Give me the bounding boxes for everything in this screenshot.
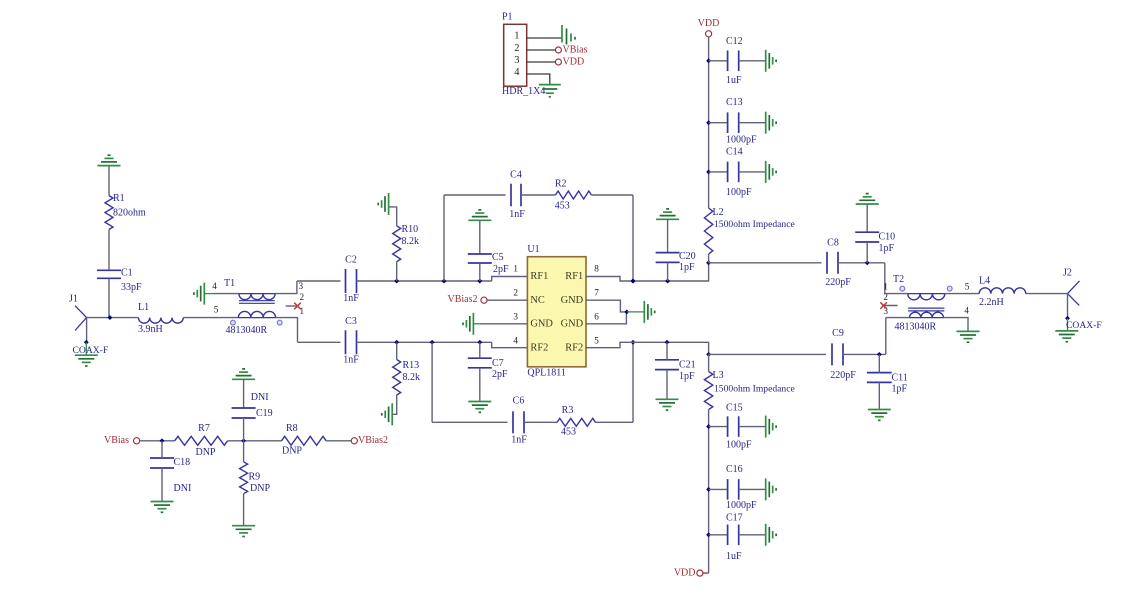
svg-text:1500ohm Impedance: 1500ohm Impedance <box>714 219 795 230</box>
capacitor C19 <box>232 392 273 419</box>
wire <box>492 277 528 282</box>
svg-text:L2: L2 <box>713 207 724 218</box>
wire <box>739 534 766 536</box>
svg-text:NC: NC <box>530 295 545 306</box>
svg-text:C16: C16 <box>726 464 743 475</box>
svg-text:L1: L1 <box>138 302 149 313</box>
wire <box>431 342 433 422</box>
wire <box>87 317 139 319</box>
wire <box>739 171 766 173</box>
wire <box>443 195 445 281</box>
wire <box>739 488 766 490</box>
svg-text:1: 1 <box>300 306 305 316</box>
junction <box>624 309 629 314</box>
junction <box>477 279 482 284</box>
svg-text:3: 3 <box>513 311 518 321</box>
svg-text:C12: C12 <box>726 36 743 47</box>
T2 polarity dot pin1 <box>900 286 905 291</box>
capacitor C7 <box>468 358 508 380</box>
capacitor C18 <box>150 457 191 494</box>
svg-text:3.9nH: 3.9nH <box>138 324 163 335</box>
svg-text:1pF: 1pF <box>679 371 695 382</box>
T1 primary winding <box>239 294 275 300</box>
wire <box>140 440 175 442</box>
wire <box>703 572 709 574</box>
ground (P1 pin 1) <box>562 25 575 45</box>
T1 polarity dot pin5 <box>231 320 236 325</box>
wire <box>586 263 709 281</box>
op-amp U1 QPL1811 <box>513 244 599 379</box>
capacitor C12 <box>726 36 743 86</box>
wire <box>708 37 710 208</box>
svg-text:1pF: 1pF <box>679 262 695 273</box>
ground (P1 pin 4) <box>539 85 561 97</box>
wire <box>586 312 626 324</box>
wire <box>298 341 341 343</box>
svg-text:2pF: 2pF <box>493 264 509 275</box>
svg-text:7: 7 <box>594 287 599 297</box>
resistor R8 <box>282 423 327 457</box>
no-connect X (T2 pin 2) <box>880 302 887 309</box>
svg-text:U1: U1 <box>527 244 539 255</box>
svg-text:C13: C13 <box>726 97 743 108</box>
ground (C12) <box>765 50 767 72</box>
ground (T1 pin 4) <box>194 283 213 305</box>
svg-text:1uF: 1uF <box>726 551 742 562</box>
svg-text:C17: C17 <box>726 513 743 524</box>
svg-text:RF2: RF2 <box>565 342 583 353</box>
svg-text:C11: C11 <box>892 372 908 383</box>
wire <box>108 278 110 317</box>
wire <box>389 207 397 226</box>
T2 polarity dot pin5 <box>947 286 952 291</box>
svg-text:C1: C1 <box>121 268 133 279</box>
wire <box>479 368 481 402</box>
wire <box>527 49 556 51</box>
wire <box>885 318 887 355</box>
svg-text:1nF: 1nF <box>343 293 359 304</box>
power port VBias (P1 pin 2) <box>555 44 587 55</box>
wire <box>709 488 728 490</box>
wire <box>843 353 886 355</box>
wire <box>878 382 880 409</box>
wire <box>480 323 527 325</box>
wire <box>1067 294 1069 319</box>
ground (above C19) <box>232 378 255 380</box>
ground (below R9) <box>232 525 255 527</box>
junction <box>865 260 870 265</box>
ground (above C20) <box>656 218 679 220</box>
svg-text:COAX-F: COAX-F <box>1066 320 1102 331</box>
svg-text:453: 453 <box>561 427 576 438</box>
svg-text:C21: C21 <box>679 360 696 371</box>
junction <box>631 279 636 284</box>
capacitor C9 <box>830 328 856 381</box>
junction <box>706 120 711 125</box>
svg-text:2pF: 2pF <box>492 369 508 380</box>
transformer T1 <box>212 278 304 336</box>
ground (C17) <box>765 524 767 546</box>
svg-text:R3: R3 <box>562 405 574 416</box>
wire <box>396 342 398 359</box>
wire <box>739 122 766 124</box>
svg-text:HDR_1X4: HDR_1X4 <box>502 86 545 97</box>
capacitor C1 <box>97 268 142 293</box>
inductor L2 <box>704 207 794 254</box>
capacitor C4 <box>509 170 525 220</box>
wire <box>708 354 710 371</box>
svg-text:5: 5 <box>214 304 219 314</box>
wire <box>885 293 908 295</box>
svg-text:100pF: 100pF <box>726 187 752 198</box>
wire <box>326 440 351 442</box>
capacitor C5 <box>468 252 509 275</box>
svg-text:GND: GND <box>561 318 584 329</box>
svg-text:220pF: 220pF <box>825 277 851 288</box>
svg-text:4813040R: 4813040R <box>226 325 268 336</box>
power port VDD (bottom) <box>674 567 703 578</box>
svg-text:2.2nH: 2.2nH <box>979 297 1004 308</box>
svg-text:DNP: DNP <box>250 483 270 494</box>
wire <box>243 379 245 408</box>
svg-text:100pF: 100pF <box>726 439 752 450</box>
junction <box>706 58 711 63</box>
junction <box>631 340 636 345</box>
connector J1 <box>69 293 87 330</box>
svg-text:8.2k: 8.2k <box>402 236 420 247</box>
junction <box>706 424 711 429</box>
wire <box>709 534 728 536</box>
wire <box>108 166 110 196</box>
svg-text:DNP: DNP <box>282 445 302 456</box>
wire <box>527 61 556 63</box>
svg-text:VBias2: VBias2 <box>358 435 388 446</box>
ground (above C5) <box>468 219 491 221</box>
wire <box>884 263 886 294</box>
ground (J1 COAX-F) <box>75 354 98 356</box>
junction <box>477 340 482 345</box>
ground (U1 pins 6,7) <box>643 301 645 323</box>
resistor R10 <box>393 224 419 262</box>
svg-text:1000pF: 1000pF <box>726 134 757 145</box>
wire <box>1026 293 1068 295</box>
wire <box>161 468 163 502</box>
wire <box>709 262 822 264</box>
connector J2 <box>1063 268 1080 306</box>
wire <box>357 341 492 343</box>
wire <box>591 194 633 196</box>
wire <box>886 317 910 319</box>
capacitor C8 <box>825 237 851 287</box>
svg-text:L4: L4 <box>979 276 990 287</box>
no-connect X (T1 pin 2) <box>294 303 301 310</box>
svg-text:6: 6 <box>594 311 599 321</box>
wire <box>666 370 668 400</box>
wire <box>667 262 669 281</box>
svg-text:C9: C9 <box>832 328 844 339</box>
wire <box>709 60 728 62</box>
wire <box>709 426 728 428</box>
T1 secondary winding <box>238 311 275 317</box>
wire <box>492 342 528 347</box>
power port VBias2 (U1 pin 2) <box>448 294 488 305</box>
svg-text:1500ohm Impedance: 1500ohm Impedance <box>714 383 795 394</box>
T1 pin 2 stub <box>286 305 298 307</box>
wire <box>243 418 245 441</box>
junction <box>665 340 670 345</box>
svg-text:J1: J1 <box>69 293 78 304</box>
junction <box>706 260 711 265</box>
svg-text:8: 8 <box>594 263 599 273</box>
svg-text:3: 3 <box>514 55 519 66</box>
svg-text:GND: GND <box>561 295 584 306</box>
ground (below C11) <box>868 409 891 411</box>
wire <box>1067 318 1069 331</box>
svg-text:R1: R1 <box>113 193 125 204</box>
junction <box>877 352 882 357</box>
wire <box>444 194 506 196</box>
wire <box>228 440 282 442</box>
capacitor C6 <box>511 395 527 445</box>
wire <box>586 300 627 312</box>
ground (R10) <box>388 193 390 215</box>
capacitor C11 <box>867 372 908 394</box>
svg-text:1uF: 1uF <box>726 75 742 86</box>
wire <box>479 263 481 281</box>
svg-text:C18: C18 <box>174 457 191 468</box>
svg-text:33pF: 33pF <box>121 282 142 293</box>
wire <box>838 262 885 264</box>
capacitor C16 <box>726 464 757 511</box>
svg-text:8.2k: 8.2k <box>403 372 421 383</box>
svg-text:J2: J2 <box>1063 268 1072 279</box>
wire <box>297 280 341 282</box>
svg-text:1pF: 1pF <box>892 384 908 395</box>
wire <box>524 421 557 423</box>
svg-text:DNP: DNP <box>195 447 215 458</box>
junction <box>160 438 165 443</box>
ground (J2 COAX-F) <box>1055 330 1078 332</box>
svg-text:5: 5 <box>965 282 970 292</box>
svg-text:220pF: 220pF <box>830 370 856 381</box>
power port VBias <box>104 435 140 446</box>
junction <box>107 315 112 320</box>
wire <box>945 293 979 295</box>
wire <box>709 122 728 124</box>
resistor R2 <box>555 178 592 211</box>
ground (C13) <box>765 112 767 134</box>
T1 polarity dot pin1 <box>277 320 282 325</box>
resistor R13 <box>393 360 420 396</box>
resistor R3 <box>557 405 596 438</box>
wire <box>275 281 297 294</box>
svg-text:C6: C6 <box>513 395 525 406</box>
ground (C16) <box>765 478 767 500</box>
T2 core <box>908 307 944 309</box>
svg-text:1: 1 <box>513 263 518 273</box>
wire <box>357 280 492 282</box>
svg-text:5: 5 <box>594 335 599 345</box>
svg-text:C7: C7 <box>492 358 504 369</box>
capacitor C15 <box>726 402 752 450</box>
transformer T2 <box>882 274 970 333</box>
resistor R9 <box>240 462 271 494</box>
junction <box>706 532 711 537</box>
svg-text:C4: C4 <box>510 170 522 181</box>
svg-text:RF1: RF1 <box>565 271 583 282</box>
capacitor C14 <box>726 147 752 198</box>
ground (above C10) <box>856 203 879 205</box>
svg-text:2: 2 <box>514 43 519 54</box>
svg-text:T1: T1 <box>224 278 235 289</box>
wire <box>479 342 481 358</box>
svg-text:C2: C2 <box>345 255 357 266</box>
inductor L1 <box>138 302 183 335</box>
wire <box>527 37 562 39</box>
svg-text:QPL1811: QPL1811 <box>527 368 566 379</box>
svg-text:C8: C8 <box>827 237 839 248</box>
ground (T2 pin 4) <box>957 330 980 332</box>
junction <box>394 279 399 284</box>
wire <box>161 441 163 458</box>
junction <box>430 340 435 345</box>
wire <box>86 318 88 343</box>
T1 core <box>239 300 275 302</box>
wire <box>739 60 766 62</box>
svg-text:VDD: VDD <box>698 18 720 29</box>
svg-text:C20: C20 <box>679 251 696 262</box>
svg-text:C3: C3 <box>345 316 357 327</box>
svg-text:4: 4 <box>212 281 217 291</box>
wire <box>866 242 868 263</box>
capacitor C10 <box>855 231 895 254</box>
svg-text:L3: L3 <box>713 370 724 381</box>
svg-text:R13: R13 <box>403 360 420 371</box>
ground (R13) <box>391 403 393 425</box>
svg-text:RF2: RF2 <box>530 342 548 353</box>
wire <box>479 220 481 254</box>
connector P1 HDR_1X4 <box>502 11 545 96</box>
svg-text:VBias2: VBias2 <box>448 294 478 305</box>
wire <box>586 342 709 354</box>
wire <box>243 494 245 526</box>
wire <box>709 353 826 355</box>
wire <box>667 219 669 252</box>
wire <box>487 299 527 301</box>
svg-text:C15: C15 <box>726 402 743 413</box>
T2 primary winding <box>908 294 945 300</box>
T2 pin 2 stub <box>882 305 898 307</box>
ground (U1 pin 3) <box>463 313 480 335</box>
ground (C15) <box>765 416 767 438</box>
ground (below C18) <box>151 501 174 503</box>
svg-text:RF1: RF1 <box>530 271 548 282</box>
capacitor C21 <box>655 360 696 382</box>
svg-text:2: 2 <box>513 287 518 297</box>
ground (below C7) <box>468 401 491 403</box>
T2 secondary winding <box>910 312 944 317</box>
junction <box>241 438 246 443</box>
svg-text:1000pF: 1000pF <box>726 500 757 511</box>
ground (below C21) <box>656 398 679 400</box>
wire <box>396 262 398 281</box>
wire <box>108 230 110 271</box>
wire <box>627 311 645 313</box>
wire <box>944 318 969 332</box>
svg-text:P1: P1 <box>502 11 513 22</box>
junction <box>84 340 89 345</box>
wire <box>85 342 87 355</box>
svg-text:R8: R8 <box>286 423 298 434</box>
svg-text:VDD: VDD <box>674 567 696 578</box>
junction <box>706 487 711 492</box>
wire <box>866 204 868 232</box>
wire <box>708 254 710 263</box>
wire <box>521 194 556 196</box>
svg-text:1: 1 <box>883 281 888 291</box>
capacitor C17 <box>726 513 743 562</box>
svg-text:C10: C10 <box>879 231 896 242</box>
svg-text:1pF: 1pF <box>879 243 895 254</box>
inductor L4 <box>979 276 1026 309</box>
ground (above R1) <box>98 165 121 167</box>
svg-text:VDD: VDD <box>563 56 585 67</box>
junction <box>394 340 399 345</box>
resistor R1 <box>105 193 146 230</box>
svg-text:VBias: VBias <box>563 44 588 55</box>
svg-text:C19: C19 <box>256 408 273 419</box>
wire <box>739 426 766 428</box>
junction <box>631 279 636 284</box>
svg-text:R9: R9 <box>249 471 261 482</box>
svg-text:GND: GND <box>530 318 553 329</box>
ground (C14) <box>765 161 767 183</box>
wire <box>878 354 880 372</box>
power port VBias2 <box>351 435 388 446</box>
svg-text:1nF: 1nF <box>509 209 525 220</box>
wire <box>527 74 550 85</box>
wire <box>708 410 710 574</box>
svg-text:4813040R: 4813040R <box>895 321 937 332</box>
svg-text:820ohm: 820ohm <box>113 207 146 218</box>
svg-text:1nF: 1nF <box>343 354 359 365</box>
svg-text:DNI: DNI <box>174 483 192 494</box>
resistor R7 <box>175 423 228 458</box>
junction <box>1065 316 1070 321</box>
power port VDD (top) <box>698 18 720 37</box>
svg-text:3: 3 <box>299 281 304 291</box>
svg-text:DNI: DNI <box>251 392 269 403</box>
svg-text:C14: C14 <box>726 147 743 158</box>
junction <box>665 279 670 284</box>
capacitor C13 <box>726 97 757 145</box>
svg-text:C5: C5 <box>492 252 504 263</box>
svg-text:R10: R10 <box>402 224 419 235</box>
capacitor C20 <box>656 251 696 273</box>
wire <box>666 342 668 360</box>
capacitor C2 <box>343 255 359 304</box>
svg-text:R2: R2 <box>555 178 567 189</box>
junction <box>706 169 711 174</box>
junction <box>442 279 447 284</box>
wire <box>632 195 634 281</box>
svg-text:4: 4 <box>513 335 518 345</box>
wire <box>709 171 728 173</box>
wire <box>432 421 507 423</box>
svg-text:4: 4 <box>514 67 520 78</box>
wire <box>213 293 239 295</box>
svg-text:VBias: VBias <box>104 435 129 446</box>
